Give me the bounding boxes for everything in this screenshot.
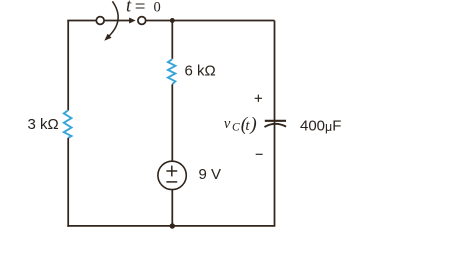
node junction bottom of middle branch [170, 223, 175, 228]
label t = 0 [126, 0, 161, 18]
voltage source V1 9V [158, 161, 186, 189]
svg-text:t: t [126, 0, 132, 17]
svg-text:400μF: 400μF [300, 117, 341, 134]
label - polarity of capacitor [256, 153, 263, 155]
svg-text:0: 0 [154, 0, 161, 15]
capacitor C 400uF plates [265, 121, 287, 127]
switch terminal circle left [96, 17, 104, 25]
svg-text:9 V: 9 V [199, 166, 222, 183]
label vC(t) [224, 114, 257, 135]
svg-text:3 kΩ: 3 kΩ [28, 116, 59, 133]
node junction top of middle branch [170, 18, 175, 23]
switch terminal circle right [138, 17, 146, 25]
wire right branch (through capacitor) [274, 21, 276, 226]
svg-text:v: v [224, 116, 231, 132]
svg-text:=: = [135, 0, 146, 18]
wire bottom [67, 225, 275, 227]
label + polarity of capacitor [255, 95, 262, 102]
wire top-right segment [146, 20, 275, 22]
svg-text:): ) [249, 114, 256, 135]
switch motion arc [104, 1, 118, 41]
wire left branch upper [67, 21, 69, 111]
svg-text:6 kΩ: 6 kΩ [185, 62, 216, 79]
resistor R 3 kOhm [64, 110, 72, 138]
wire top-left segment [67, 20, 96, 22]
wire left branch lower [67, 138, 69, 227]
switch closing arrow [104, 18, 135, 24]
wire middle branch upper [171, 21, 173, 59]
wire middle branch middle [171, 84, 173, 161]
svg-text:C: C [232, 122, 240, 134]
wire middle branch lower [171, 190, 173, 226]
resistor R 6 kOhm [168, 59, 176, 84]
